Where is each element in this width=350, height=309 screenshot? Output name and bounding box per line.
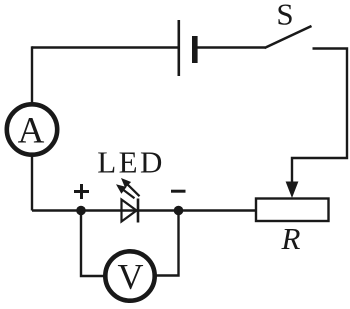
- LED: [116, 178, 140, 223]
- battery: [179, 20, 195, 76]
- wire voltmeter right branch: [156, 211, 179, 276]
- svg-text:A: A: [18, 111, 45, 152]
- rheostat wiper arrow: [286, 182, 299, 199]
- switch S: [265, 0, 312, 48]
- svg-text:S: S: [276, 0, 293, 32]
- voltmeter V: [105, 251, 154, 300]
- svg-text:R: R: [281, 221, 301, 256]
- wire ammeter to bottom row: [31, 157, 33, 211]
- svg-text:V: V: [118, 257, 144, 297]
- wire voltmeter left branch: [81, 211, 104, 277]
- wire battery to switch: [198, 46, 266, 48]
- wire left vertical (top corner to ammeter): [31, 46, 33, 102]
- node + junction dot: [76, 206, 86, 216]
- - label: [171, 190, 186, 193]
- rheostat R: [256, 199, 329, 257]
- wire top-left horizontal: [32, 46, 178, 48]
- node - junction dot: [174, 206, 184, 216]
- LED label: [97, 145, 164, 180]
- wire switch to right side down: [292, 49, 347, 183]
- wire bottom horizontal row: [32, 209, 256, 211]
- ammeter A: [7, 104, 57, 154]
- + label: [74, 184, 89, 199]
- svg-text:LED: LED: [97, 145, 164, 180]
